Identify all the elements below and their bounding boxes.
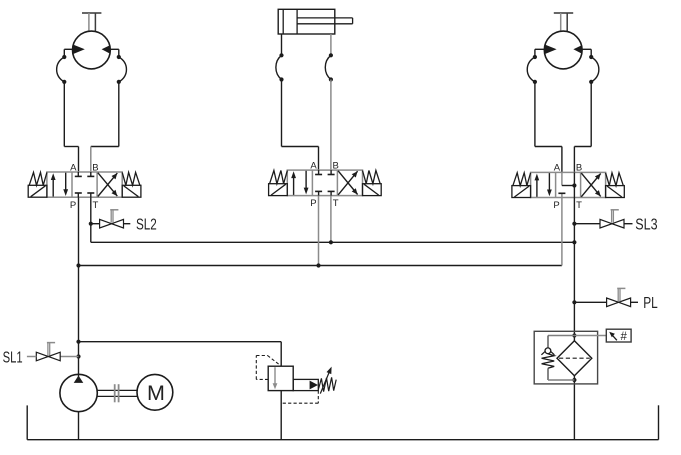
valve V2 port label B [333,160,339,171]
valve V3 right solenoid [606,186,625,198]
wire: relief outlet to tank [280,391,282,440]
label SL2 [136,217,157,234]
junction: filter outlet [572,378,576,382]
valve V1 right return spring [122,172,140,185]
relief valve RV flow arrow [273,367,278,389]
svg-text:SL2: SL2 [136,217,157,234]
valve V3 left solenoid [512,186,531,198]
junction: SL1 branch [76,354,80,358]
relief valve RV spring housing [293,379,318,390]
wire: SL1 outlet stub [27,356,37,358]
shutoff valve PL body [607,298,631,307]
wire: cylinder rod-end port down [330,34,332,55]
svg-text:M: M [147,381,165,405]
wire: motor M1 left port stub [64,49,73,57]
wire: PL branch [574,301,606,303]
valve V1 port label T [92,200,98,211]
valve V1 port label A [70,162,77,173]
wire: valve V3 P-port down [561,198,563,266]
cylinder CYL rod [297,18,353,24]
junction: V2 T on tank header [329,240,333,244]
svg-text:P: P [70,200,76,211]
wire: SL1 branch [60,356,78,358]
electric motor M label [147,381,165,405]
bypass check valve CV ball [545,348,551,354]
valve V2 left solenoid [269,184,288,196]
clogging indicator DI symbol [620,331,627,343]
tank (reservoir) [27,405,658,439]
valve V3 left position (parallel flow arrows) [535,173,552,197]
valve V2 port label P [310,198,316,209]
wire: M2 right step to valve B [574,147,591,173]
clogging indicator DI arrow [609,332,617,341]
valve V3 left return spring [513,173,531,186]
wire: valve V2 T-port down [330,196,332,243]
wire: relief branch header [79,341,282,343]
wire: M1 left step to valve A [64,147,78,173]
svg-text:B: B [576,163,582,174]
bypass check valve CV spring [542,354,555,369]
shutoff valve SL3 handle [611,210,619,223]
wire: valve V3 T-port down to tank [573,198,575,440]
valve V3 port label P [553,200,559,211]
wire: pressure header [79,265,562,267]
junction: V1 T / SL2 branch [89,222,93,226]
valve V2 right position (crossed flow arrows) [338,171,358,195]
wire: bypass branch bottom [548,368,574,380]
shutoff valve SL1 body [36,352,60,361]
shaft of hydraulic motor M1 [82,13,101,32]
wire: valve V1 P-port down to pump [78,197,80,376]
wire: cylinder cap-end port down [281,34,283,55]
directional control valve V2 body (3-position envelope) [287,170,362,196]
svg-text:B: B [92,162,98,173]
electric motor M body [137,374,173,410]
wire: PL outlet stub [631,301,638,303]
shutoff valve SL2 body [100,219,124,228]
wire: valve V1 T-port down [90,197,92,242]
valve V3 center position (A,B to T; P blocked) [558,172,576,197]
relief valve RV pilot line (dashed) [256,356,281,380]
flexible hose to cylinder cap end [276,53,284,81]
valve V1 right solenoid [122,185,141,197]
junction: relief branch [76,340,80,344]
svg-text:A: A [70,162,77,173]
wire: M1 right hose down [118,82,120,147]
coupling [115,384,119,402]
junction: pressure line left [76,263,80,267]
svg-text:P: P [553,200,559,211]
wire: pump suction to tank [78,412,80,440]
wire: SL2 outlet stub [124,223,131,225]
hydraulic motor M1 body [73,31,111,69]
relief valve RV body [268,366,293,390]
wire: SL2 branch [91,223,100,225]
flexible hose to motor M2 port B [589,55,599,84]
wire: valve V2 P-port down [318,196,320,266]
valve V2 right return spring [363,171,381,184]
svg-text:T: T [92,200,98,211]
valve V3 port label B [576,163,582,174]
filter F1 element [557,341,592,376]
wire: M2 left hose down [534,82,536,147]
wire: M1 right step to valve B [91,147,119,173]
label SL1 [3,349,23,366]
wire: motor M1 right port stub [110,49,119,57]
wire: rod-end hose to valve B [330,80,332,171]
flexible hose to motor M1 port B [117,55,127,84]
hydraulic motor M2 body [544,31,582,69]
valve V2 center position (all ports blocked) [315,170,335,196]
pump P1 flow triangle [74,376,84,383]
valve V1 left position (parallel flow arrows) [51,173,68,197]
svg-text:T: T [333,198,339,209]
hydraulic motor M2 flow triangles [544,44,582,54]
valve V2 left return spring [270,171,288,184]
svg-text:SL3: SL3 [635,217,657,234]
svg-text:PL: PL [643,295,658,312]
directional control valve V3 body (3-position envelope) [531,172,606,197]
bypass check valve CV seat [541,351,554,355]
svg-text:#: # [620,331,627,343]
valve V1 port label P [70,200,76,211]
hydraulic motor M1 flow triangles [73,44,111,54]
relief valve RV spring [319,377,337,391]
valve V1 right position (crossed flow arrows) [98,173,118,197]
cylinder CYL piston [283,9,297,34]
label PL [643,295,658,312]
flexible hose to cylinder rod end [325,53,333,81]
wire: SL3 branch [574,223,599,225]
wire: M2 right hose down [590,82,592,147]
wire: clogging indicator tap [574,335,606,337]
valve V2 right solenoid [363,184,382,196]
valve V3 right position (crossed flow arrows) [581,173,600,197]
svg-text:B: B [333,160,339,171]
filter assembly enclosure [534,331,597,384]
flexible hose to motor M1 port A [57,55,67,84]
valve V3 port label T [576,200,582,211]
shutoff valve SL1 handle [47,343,55,356]
pump P1 body [60,374,97,411]
valve V2 port label A [310,160,317,171]
wire: cap-end hose to valve A [282,80,319,171]
svg-text:A: A [310,160,317,171]
shaft of hydraulic motor M2 [554,13,573,32]
junction: tank header to V3 T line [572,240,576,244]
valve V2 port label T [333,198,339,209]
flexible hose to motor M2 port A [527,55,537,84]
svg-text:A: A [554,163,561,174]
svg-text:T: T [576,200,582,211]
valve V1 center position (all ports blocked) [75,172,95,197]
pump shaft double line [97,390,137,396]
wire: tank return header [91,241,575,243]
junction: V2 P on pressure header [316,263,320,267]
wire: SL3 outlet stub [624,223,633,225]
valve V3 right return spring [606,173,624,186]
wire: bypass branch top [548,336,574,349]
hydraulic cylinder CYL body [278,9,335,34]
relief valve RV poppet triangle [310,381,318,390]
valve V2 left position (parallel flow arrows) [291,171,308,195]
wire: relief branch down [280,342,282,367]
shutoff valve PL handle [617,288,625,301]
valve V1 port label B [92,162,98,173]
valve V1 left solenoid [28,185,47,197]
shutoff valve SL2 handle [110,210,118,223]
shutoff valve SL3 body [600,219,624,228]
svg-text:SL1: SL1 [3,349,23,366]
junction: PL branch [572,300,576,304]
directional control valve V1 body (3-position envelope) [47,172,122,197]
label SL3 [635,217,657,234]
clogging indicator DI box [606,329,631,342]
relief valve RV adjustment arrow [320,367,331,394]
wire: motor M2 right port stub [582,49,591,57]
wire: M1 left hose down [63,82,65,147]
valve V1 left return spring [29,172,47,185]
valve V3 port label A [554,163,561,174]
wire: M2 left step to valve A [535,147,562,173]
svg-text:P: P [310,198,316,209]
wire: motor M2 left port stub [535,49,545,57]
junction: filter inlet [572,333,576,337]
junction: SL3 branch [572,222,576,226]
relief valve RV drain line (dashed) [281,391,318,404]
